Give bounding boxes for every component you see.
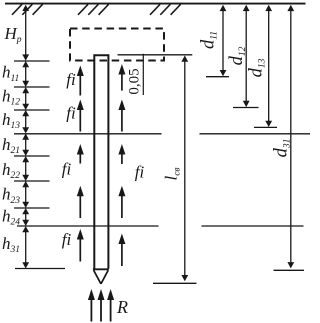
svg-text:Hp: Hp [4, 24, 22, 45]
svg-text:d31: d31 [271, 139, 292, 158]
svg-text:h24: h24 [2, 206, 20, 227]
svg-text:h21: h21 [2, 135, 20, 156]
svg-text:h11: h11 [2, 63, 19, 84]
svg-text:f‌i: f‌i [62, 230, 72, 249]
svg-text:d13: d13 [246, 58, 267, 77]
svg-text:h12: h12 [2, 86, 20, 107]
svg-text:lсв: lсв [161, 167, 182, 180]
svg-text:h31: h31 [2, 234, 20, 255]
svg-text:h23: h23 [2, 185, 20, 206]
svg-text:0,05: 0,05 [127, 68, 143, 94]
svg-text:f‌i: f‌i [135, 162, 145, 181]
svg-text:d12: d12 [227, 46, 248, 65]
svg-text:h22: h22 [2, 160, 20, 181]
svg-text:d11: d11 [198, 31, 219, 49]
svg-text:R: R [116, 297, 128, 317]
svg-text:f‌i: f‌i [66, 103, 76, 122]
svg-text:h13: h13 [2, 110, 20, 131]
svg-text:f‌i: f‌i [62, 159, 72, 178]
svg-text:f‌i: f‌i [66, 70, 76, 89]
